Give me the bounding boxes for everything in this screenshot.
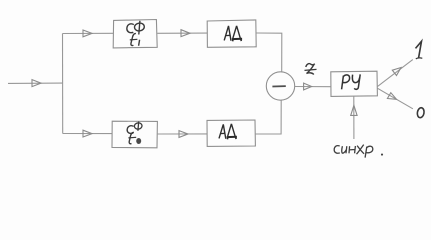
- label Д of АД in AD0: [228, 124, 236, 137]
- label Р of РУ in RU: [342, 76, 344, 90]
- label C of СФ in SF0: [127, 126, 133, 134]
- label output 1: [416, 41, 422, 58]
- wire: diagonal to output 0: [377, 88, 413, 109]
- arrowhead: to output 1: [392, 68, 401, 76]
- wire: bottom branch to SF0: [63, 133, 112, 135]
- wire: top branch to SF1: [63, 32, 114, 34]
- block RU (decision device) box: [331, 71, 378, 96]
- label А of АД in AD1: [224, 26, 231, 41]
- label f0 in SF0: [129, 132, 134, 143]
- block SF0 (matched filter f0) box: [112, 121, 157, 148]
- label синхр.: [334, 145, 383, 158]
- arrowhead: output arrow: [304, 83, 312, 90]
- wire: SF1 to AD1: [157, 32, 207, 34]
- label C of СФ in SF1: [127, 24, 134, 33]
- arrowhead: SF1-AD1 arrow: [181, 30, 190, 37]
- node Z label: [305, 64, 317, 75]
- minus sign in subtractor: [272, 85, 285, 87]
- label f1 in SF1: [131, 34, 136, 46]
- label output 0: [417, 107, 425, 118]
- wire: AD0 to subtractor: [255, 100, 281, 134]
- wire: input line: [8, 82, 63, 84]
- arrowhead: bottom branch arrow: [83, 130, 92, 137]
- wire: SF0 to AD0: [157, 133, 207, 135]
- wire: vertical splitter: [62, 34, 64, 134]
- label А of АД in AD0: [219, 124, 226, 138]
- subtractor circle: [266, 72, 294, 100]
- wire: subtractor output to RU: [295, 86, 331, 88]
- arrowhead: to output 0: [387, 93, 396, 100]
- block SF1 (matched filter f1) box: [113, 20, 157, 48]
- label Ф of СФ in SF0: [137, 122, 140, 131]
- arrowhead: sync arrow: [351, 105, 357, 115]
- wire: sync input to RU: [353, 96, 355, 139]
- label У of РУ in RU: [352, 75, 359, 83]
- block AD1 (amplitude detector, top) box: [207, 20, 256, 47]
- label Ф of СФ in SF1: [139, 21, 140, 35]
- label Д of АД in AD1: [233, 26, 241, 39]
- wire: AD1 to subtractor: [256, 33, 282, 72]
- wire: diagonal to output 1: [377, 60, 412, 87]
- arrowhead: top branch arrow: [83, 30, 92, 37]
- arrowhead: SF0-AD0 arrow: [179, 131, 188, 138]
- block AD0 (amplitude detector, bottom) box: [207, 120, 255, 146]
- arrowhead: input arrow: [32, 80, 41, 87]
